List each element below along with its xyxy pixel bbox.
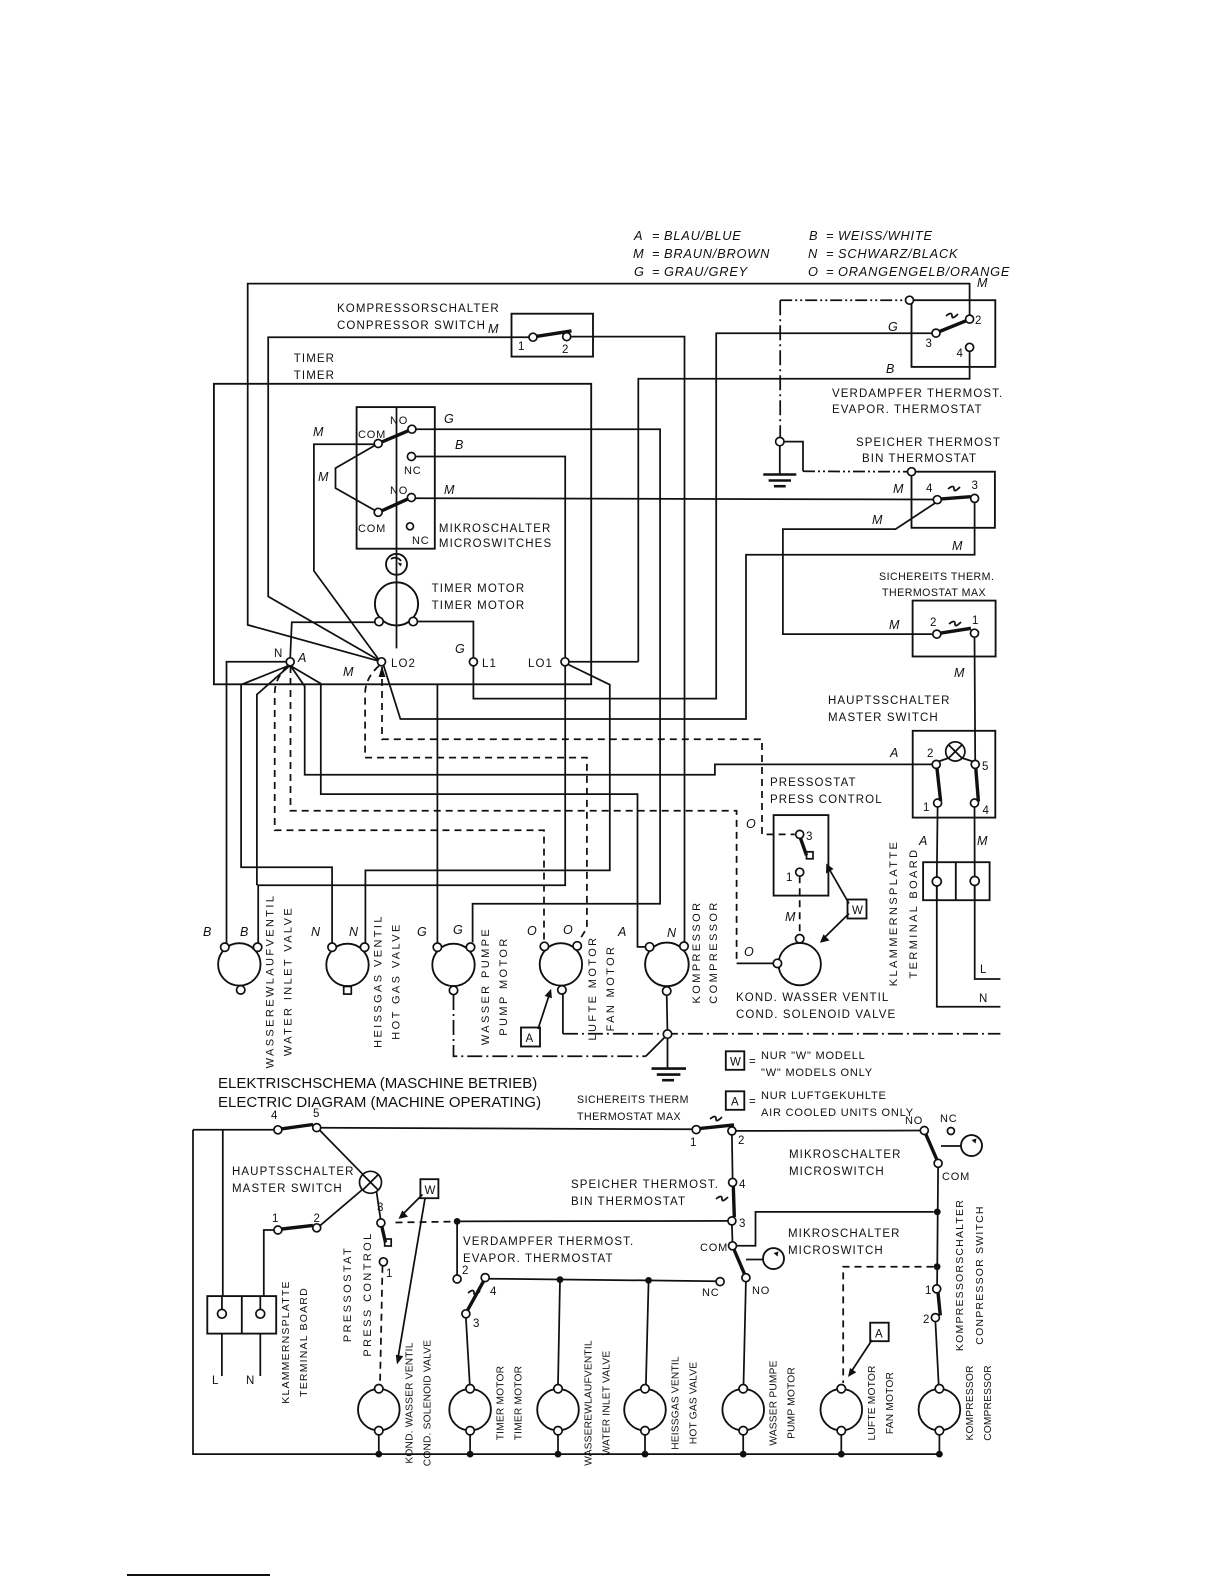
terminal LO2 node — [378, 658, 386, 666]
pressostat mid contact — [807, 852, 814, 859]
svg-text:A: A — [875, 1329, 884, 1341]
svg-text:3: 3 — [806, 831, 812, 843]
svg-text:B: B — [886, 362, 894, 376]
wire: junction down to evap contact 2 — [456, 1221, 458, 1275]
dashed wire M: pressostat contact 1 down to solenoid valve top terminal — [799, 876, 801, 934]
valve top terminal — [796, 935, 804, 943]
microswitch blade COM2-NO2 — [382, 499, 408, 511]
master switch box — [913, 731, 996, 818]
svg-text:4: 4 — [739, 1179, 746, 1191]
svg-text:M: M — [343, 665, 354, 679]
terminal board (top diagram) — [923, 862, 990, 900]
svg-text:4: 4 — [271, 1110, 278, 1122]
pump motor — [432, 944, 474, 986]
wire A: N terminal to master switch contact 2 — [290, 665, 932, 774]
bin node circle at box corner — [908, 468, 916, 476]
svg-text:=: = — [826, 264, 834, 279]
svg-text:O: O — [744, 945, 754, 959]
left rail and bottom bus — [193, 1130, 939, 1454]
svg-text:COM: COM — [358, 429, 386, 441]
wire: fan motor bottom terminal down to boundary — [562, 995, 564, 1034]
wire N: fan line to hot gas valve left terminal — [241, 665, 332, 943]
svg-text:L: L — [980, 964, 988, 976]
svg-text:G: G — [444, 412, 454, 426]
wire M: bin thermostat 4 to safety thermostat contact 2 — [783, 503, 935, 634]
microswitch 1 actuator — [961, 1135, 982, 1156]
top rail: master 5 to safety thermostat — [321, 1128, 693, 1130]
wire M: master switch 4 down through terminal board, L supply stub — [975, 807, 1001, 979]
svg-text:N: N — [246, 1375, 255, 1387]
svg-text:=: = — [652, 264, 660, 279]
svg-text:M: M — [313, 425, 324, 439]
svg-text:A: A — [617, 925, 626, 939]
svg-text:M: M — [872, 513, 883, 527]
wire: stub into solenoid valve left contact — [737, 962, 774, 964]
svg-text:W: W — [425, 1185, 437, 1197]
svg-text:WASSEREWLAUFVENTIL: WASSEREWLAUFVENTIL — [584, 1340, 595, 1466]
ground node circle — [663, 1030, 671, 1038]
master switch contact 5 — [971, 760, 979, 768]
svg-text:COMPRESSOR: COMPRESSOR — [983, 1365, 994, 1441]
microswitch COM-2 contact — [374, 508, 382, 516]
svg-text:1: 1 — [518, 341, 524, 353]
svg-text:COM: COM — [700, 1242, 728, 1254]
wire M: safety thermostat 1 down to master switch 5 — [974, 637, 977, 760]
evap thermostat contact 4 — [966, 343, 974, 351]
svg-text:BIN THERMOSTAT: BIN THERMOSTAT — [862, 453, 977, 465]
master switch (bottom) contacts 1 2 — [274, 1226, 282, 1234]
safety squiggle — [949, 622, 961, 626]
svg-text:SPEICHER THERMOST: SPEICHER THERMOST — [856, 437, 1001, 449]
wire: timer motor right contact to L1 — [417, 622, 473, 658]
W legend box — [726, 1051, 745, 1070]
wire: evap 3 down to timer motor — [466, 1318, 470, 1385]
compressor switch contact 1 — [529, 333, 537, 341]
legend wire colour codes — [633, 228, 1010, 279]
svg-text:1: 1 — [786, 872, 792, 884]
safety thermostat blade — [941, 628, 971, 633]
microswitch box — [357, 407, 435, 549]
svg-text:PRESSOSTAT: PRESSOSTAT — [342, 1246, 354, 1342]
svg-text:MICROSWITCH: MICROSWITCH — [788, 1245, 884, 1257]
svg-text:4: 4 — [957, 348, 964, 360]
svg-text:WASSER PUMPE: WASSER PUMPE — [480, 927, 492, 1045]
pressostat blade — [382, 1227, 386, 1243]
svg-text:3: 3 — [972, 480, 978, 492]
svg-text:VERDAMPFER THERMOST.: VERDAMPFER THERMOST. — [832, 388, 1003, 400]
microswitch NO-1 contact — [408, 425, 416, 433]
svg-text:FAN MOTOR: FAN MOTOR — [885, 1372, 896, 1434]
pump motor (bottom row) — [722, 1389, 764, 1431]
svg-text:THERMOSTAT MAX: THERMOSTAT MAX — [577, 1111, 681, 1123]
svg-text:SCHWARZ/BLACK: SCHWARZ/BLACK — [838, 246, 958, 261]
L supply wire down to terminal board — [222, 1130, 224, 1296]
lamp leads — [939, 758, 949, 762]
safety thermostat box — [913, 601, 996, 657]
svg-text:A: A — [889, 746, 898, 760]
svg-text:TIMER MOTOR: TIMER MOTOR — [432, 583, 526, 595]
svg-text:COND. SOLENOID VALVE: COND. SOLENOID VALVE — [422, 1340, 433, 1466]
svg-text:HOT GAS VALVE: HOT GAS VALVE — [689, 1362, 700, 1444]
svg-text:AIR COOLED UNITS ONLY: AIR COOLED UNITS ONLY — [761, 1107, 914, 1119]
wire M: microswitch NO-2 to bin thermostat contact 4 — [415, 498, 933, 499]
dashed wire O: LO2 down across to pressostat contact 3 — [382, 667, 795, 834]
evap node circle at box corner — [906, 296, 914, 304]
master switch lamp — [946, 742, 965, 761]
svg-text:WEISS/WHITE: WEISS/WHITE — [838, 228, 933, 243]
svg-text:1: 1 — [690, 1137, 696, 1149]
wire G: pump motor left terminal up to timer box edge — [436, 684, 438, 943]
wire: compressor switch down to compressor motor — [935, 1322, 938, 1385]
svg-text:G: G — [453, 923, 463, 937]
bin thermostat blade 4-3 — [941, 497, 971, 499]
svg-text:TIMER MOTOR: TIMER MOTOR — [514, 1366, 525, 1440]
ground symbol upper — [763, 446, 796, 486]
footer mark — [127, 1574, 270, 1576]
svg-text:A: A — [731, 1097, 740, 1109]
svg-text:M: M — [633, 246, 644, 261]
safety thermostat (bottom) contacts — [692, 1126, 700, 1134]
compressor switch box — [512, 314, 594, 357]
evap thermostat (bottom) contact 4 and blade to 3 — [481, 1274, 489, 1282]
dashed wire: pressostat 3 to junction — [396, 1221, 453, 1224]
svg-text:N: N — [274, 648, 283, 660]
pressostat (bottom) contact 3 — [377, 1219, 385, 1227]
svg-text:BIN THERMOSTAT: BIN THERMOSTAT — [571, 1196, 686, 1208]
lamp wires — [320, 1130, 364, 1174]
svg-text:KLAMMERNSPLATTE: KLAMMERNSPLATTE — [888, 840, 900, 986]
wire: junction to bin thermostat 3 — [457, 1220, 728, 1223]
svg-text:NUR "W" MODELL: NUR "W" MODELL — [761, 1050, 866, 1062]
svg-text:KOND. WASSER VENTIL: KOND. WASSER VENTIL — [736, 992, 889, 1004]
svg-text:HAUPTSSCHALTER: HAUPTSSCHALTER — [828, 695, 951, 707]
svg-text:M: M — [952, 539, 963, 553]
wire B: evap thermostat 4 down and across to LO1 junction — [638, 351, 969, 662]
svg-text:LO1: LO1 — [528, 658, 553, 670]
dashed wire: pressostat 1 down to solenoid valve — [380, 1266, 383, 1385]
wire M: LO2 to compressor-switch contact 1 — [268, 337, 529, 662]
svg-text:TIMER: TIMER — [294, 370, 335, 382]
compressor switch (bottom) contacts — [933, 1285, 941, 1293]
svg-text:MASTER SWITCH: MASTER SWITCH — [232, 1183, 343, 1195]
terminal L1 node — [469, 658, 477, 666]
microswitch blade COM1-NO1 — [382, 431, 408, 442]
dashed wire O: N terminal down across to condenser solenoid valve left terminal — [291, 666, 737, 963]
svg-text:"W" MODELS ONLY: "W" MODELS ONLY — [761, 1067, 873, 1079]
svg-text:COM: COM — [358, 523, 386, 535]
svg-text:A: A — [918, 834, 927, 848]
svg-text:L: L — [212, 1375, 220, 1387]
bin thermostat squiggle — [948, 487, 960, 491]
ground symbol lower — [652, 1038, 687, 1080]
svg-text:MICROSWITCH: MICROSWITCH — [789, 1166, 885, 1178]
svg-text:2: 2 — [738, 1135, 744, 1147]
svg-text:B: B — [240, 925, 248, 939]
evap thermostat (bottom) contact 2 — [453, 1275, 461, 1283]
svg-text:2: 2 — [314, 1213, 320, 1225]
junction dot on evap feed — [454, 1218, 461, 1225]
W-model box (bottom) with arrows — [420, 1179, 438, 1198]
bus (bottom diagram) from evap 4 to microswitch NC — [489, 1279, 716, 1282]
wire: bin thermostat 3 down across and to LO2 — [384, 502, 975, 719]
svg-text:1: 1 — [972, 615, 978, 627]
svg-text:NUR LUFTGEKUHLTE: NUR LUFTGEKUHLTE — [761, 1090, 887, 1102]
A-model box (bottom) with arrow — [870, 1323, 889, 1342]
pressostat contact 1 — [379, 1258, 387, 1266]
svg-text:KOMPRESSORSCHALTER: KOMPRESSORSCHALTER — [337, 303, 500, 315]
W-model box with arrows — [848, 900, 867, 919]
svg-text:EVAPOR. THERMOSTAT: EVAPOR. THERMOSTAT — [832, 404, 983, 416]
svg-text:4: 4 — [926, 483, 933, 495]
safety thermostat contact 1 — [971, 629, 979, 637]
svg-text:NO: NO — [905, 1115, 923, 1127]
bin thermostat contact 4 — [933, 496, 941, 504]
fan motor (bottom row) — [821, 1389, 863, 1431]
ground node circle upper — [776, 437, 784, 445]
terminal N node — [286, 658, 294, 666]
wire: diagonal into ground node — [646, 1037, 666, 1057]
svg-text:TIMER MOTOR: TIMER MOTOR — [496, 1366, 507, 1440]
wire to master switch contact 4 — [193, 1129, 274, 1131]
wire G: microswitch NO-1 right, down, to pump motor right terminal — [416, 429, 660, 942]
pressostat blade — [801, 838, 807, 855]
timer motor (bottom row) — [449, 1389, 491, 1431]
svg-text:=: = — [826, 246, 834, 261]
svg-text:MICROSWITCHES: MICROSWITCHES — [439, 538, 552, 550]
svg-text:2: 2 — [923, 1314, 929, 1326]
fan motor — [540, 943, 582, 985]
svg-text:NC: NC — [940, 1113, 958, 1125]
svg-text:M: M — [977, 276, 988, 290]
terminal board (bottom diagram) — [207, 1296, 276, 1334]
svg-text:SICHEREITS THERM.: SICHEREITS THERM. — [879, 571, 994, 583]
svg-text:2: 2 — [562, 344, 568, 356]
evap thermostat contact 2 — [966, 315, 974, 323]
svg-text:N: N — [979, 993, 988, 1005]
pressostat contact 1 — [796, 868, 804, 876]
svg-text:TERMINAL BOARD: TERMINAL BOARD — [298, 1287, 310, 1397]
timer motor circle — [375, 582, 418, 625]
svg-text:THERMOSTAT MAX: THERMOSTAT MAX — [882, 587, 986, 599]
dash-dot boundary wire through ground node — [563, 1033, 1001, 1035]
water inlet valve motor — [218, 943, 260, 985]
terminal circles — [932, 877, 941, 886]
microswitch 2 COM contact and blade to NO — [729, 1242, 737, 1250]
svg-text:W: W — [852, 905, 864, 917]
svg-text:1: 1 — [923, 802, 929, 814]
svg-text:3: 3 — [473, 1318, 479, 1330]
solenoid valve (bottom row) — [358, 1389, 400, 1431]
svg-text:A: A — [526, 1033, 535, 1045]
arrow head at LO2 on dashed wire — [379, 666, 386, 677]
wire: compressor bottom terminal down to ground node — [666, 995, 669, 1034]
compressor motor — [645, 943, 689, 987]
svg-text:2: 2 — [975, 315, 981, 327]
svg-text:O: O — [527, 924, 537, 938]
microswitch shaft — [396, 407, 398, 648]
svg-text:B: B — [203, 925, 211, 939]
compressor switch blade — [537, 331, 572, 336]
svg-text:COND. SOLENOID VALVE: COND. SOLENOID VALVE — [736, 1009, 896, 1021]
microswitch 2 actuator — [763, 1248, 784, 1269]
svg-text:5: 5 — [313, 1108, 319, 1120]
wire: N terminal up to timer motor left contact — [290, 622, 375, 658]
svg-text:A: A — [633, 228, 643, 243]
svg-text:MASTER SWITCH: MASTER SWITCH — [828, 712, 939, 724]
compressor switch contact 2 — [563, 333, 571, 341]
svg-text:O: O — [563, 923, 573, 937]
svg-text:4: 4 — [490, 1286, 497, 1298]
svg-text:KOMPRESSOR: KOMPRESSOR — [691, 901, 703, 1004]
hot gas valve (bottom row) — [624, 1389, 666, 1431]
svg-text:W: W — [730, 1057, 742, 1069]
master switch contact 4 — [971, 799, 979, 807]
svg-text:2: 2 — [930, 617, 936, 629]
svg-text:NC: NC — [404, 465, 422, 477]
svg-text:LUFTE MOTOR: LUFTE MOTOR — [867, 1365, 878, 1440]
svg-text:G: G — [417, 925, 427, 939]
dashed wire O: N terminal curve down to fan motor left terminal — [275, 666, 544, 942]
svg-text:KOMPRESSOR: KOMPRESSOR — [965, 1365, 976, 1440]
svg-text:TIMER MOTOR: TIMER MOTOR — [432, 600, 526, 612]
svg-text:PUMP MOTOR: PUMP MOTOR — [498, 936, 510, 1035]
wire: compressor switch contact 2 down to compressor motor right terminal — [571, 337, 685, 942]
valve left terminal — [773, 959, 781, 967]
wire: terminal circles to board bottom — [936, 886, 938, 900]
svg-text:M: M — [889, 618, 900, 632]
dash-dot-dot wire: evap box top edge left extension — [780, 299, 907, 301]
top rail to microswitch 1 NO — [736, 1130, 920, 1132]
svg-text:FAN MOTOR: FAN MOTOR — [605, 945, 617, 1032]
svg-text:1: 1 — [925, 1285, 931, 1297]
wire M: microswitch COM-1 left and down to LO2 — [314, 444, 378, 659]
svg-text:NO: NO — [390, 485, 408, 497]
timer motor right contact — [409, 617, 417, 625]
svg-text:NO: NO — [390, 415, 408, 427]
svg-text:NO: NO — [752, 1285, 770, 1297]
svg-text:1: 1 — [272, 1213, 278, 1225]
safety thermostat contact 2 — [933, 630, 941, 638]
bus junction dots and drops to water/hot-gas valves — [557, 1276, 564, 1283]
svg-text:=: = — [749, 1096, 757, 1108]
timer motor left contact — [375, 617, 383, 625]
svg-text:EVAPOR. THERMOSTAT: EVAPOR. THERMOSTAT — [463, 1253, 614, 1265]
svg-text:3: 3 — [926, 338, 932, 350]
compressor motor (bottom row) — [919, 1389, 961, 1431]
svg-text:GRAU/GREY: GRAU/GREY — [664, 264, 749, 279]
wire: LO1 to B-wire vertical — [569, 661, 638, 663]
svg-text:=: = — [652, 228, 660, 243]
svg-text:WASSER PUMPE: WASSER PUMPE — [769, 1360, 780, 1445]
bin thermostat (bottom) — [729, 1178, 737, 1186]
svg-text:PRESS CONTROL: PRESS CONTROL — [362, 1231, 374, 1356]
microswitch NC-1 contact — [407, 453, 415, 461]
svg-text:=: = — [749, 1056, 757, 1068]
svg-text:CONPRESSOR SWITCH: CONPRESSOR SWITCH — [337, 320, 486, 332]
wire A: N terminal to compressor motor left terminal — [290, 666, 646, 947]
svg-text:COMPRESSOR: COMPRESSOR — [708, 900, 720, 1003]
svg-text:TIMER: TIMER — [294, 353, 335, 365]
svg-text:BLAU/BLUE: BLAU/BLUE — [664, 228, 742, 243]
dash-dot wire: pump motor bottom terminal to ground node — [454, 995, 646, 1056]
svg-text:3: 3 — [377, 1202, 383, 1214]
dashed wire: junction to A-model fan motor — [843, 1267, 933, 1383]
dash-dot wire: evap box corner down to ground node — [779, 300, 781, 437]
condenser solenoid valve motor circle — [779, 943, 821, 985]
svg-text:G: G — [455, 642, 465, 656]
microswitch 1 NO contact and blade to COM — [920, 1127, 928, 1135]
svg-text:HEISSGAS VENTIL: HEISSGAS VENTIL — [671, 1356, 682, 1450]
svg-text:CONPRESSOR SWITCH: CONPRESSOR SWITCH — [974, 1205, 986, 1344]
svg-text:SPEICHER THERMOST.: SPEICHER THERMOST. — [571, 1179, 719, 1191]
svg-text:PUMP MOTOR: PUMP MOTOR — [787, 1367, 798, 1439]
A-model box with arrow (top diagram) — [521, 1028, 540, 1047]
terminal LO1 node — [561, 658, 569, 666]
wire bin 3 down to COM — [731, 1225, 734, 1242]
svg-text:TERMINAL BOARD: TERMINAL BOARD — [908, 848, 920, 979]
svg-text:HAUPTSSCHALTER: HAUPTSSCHALTER — [232, 1166, 355, 1178]
svg-text:M: M — [954, 666, 965, 680]
evap thermostat contact 3 — [932, 329, 940, 337]
dashed wire O: LO2 curve down across to fan motor right terminal — [365, 666, 587, 942]
svg-text:G: G — [888, 320, 898, 334]
microswitch COM-1 contact — [374, 440, 382, 448]
svg-text:B: B — [809, 228, 818, 243]
svg-text:BRAUN/BROWN: BRAUN/BROWN — [664, 246, 770, 261]
evap thermostat blade 3-2 — [940, 321, 967, 332]
wire G: evap thermostat 3 to vertical and L1 terminal — [473, 333, 932, 698]
svg-text:LO2: LO2 — [391, 658, 416, 670]
svg-text:N: N — [349, 925, 359, 939]
svg-text:M: M — [893, 482, 904, 496]
hot gas valve motor — [326, 944, 368, 986]
svg-text:4: 4 — [983, 805, 990, 817]
svg-text:ELEKTRISCHSCHEMA (MASCHINE BET: ELEKTRISCHSCHEMA (MASCHINE BETRIEB) — [218, 1075, 537, 1092]
wire B: N terminal left then down to water valve left terminal — [227, 662, 287, 943]
svg-text:G: G — [634, 264, 645, 279]
svg-text:L1: L1 — [482, 658, 497, 670]
A legend box — [726, 1091, 745, 1110]
svg-text:PRESSOSTAT: PRESSOSTAT — [770, 777, 857, 789]
svg-text:2: 2 — [462, 1265, 468, 1277]
pressostat mid contact — [385, 1239, 392, 1246]
wire safety 2 down to bin thermostat 4 — [731, 1135, 734, 1179]
microswitch NC-2 contact — [407, 523, 414, 530]
wire: N terminal fan line to B-wire corner — [257, 665, 290, 885]
microswitch 2 NC contact — [716, 1278, 724, 1286]
svg-text:M: M — [318, 470, 329, 484]
wire: evap ground node link — [784, 442, 803, 472]
svg-text:3: 3 — [739, 1218, 745, 1230]
bin thermostat contact 3 — [971, 494, 979, 502]
wire M: LO2 to outer loop to evaporator thermostat contact 2 — [248, 284, 970, 662]
svg-text:KLAMMERNSPLATTE: KLAMMERNSPLATTE — [280, 1280, 292, 1403]
svg-text:O: O — [746, 817, 756, 831]
master switch contact 2 — [932, 760, 940, 768]
svg-text:2: 2 — [927, 748, 933, 760]
master switch contact 1 — [934, 799, 942, 807]
wire: microswitch NO down to pump motor — [744, 1282, 746, 1385]
svg-text:M: M — [785, 910, 796, 924]
svg-text:LUFTE MOTOR: LUFTE MOTOR — [587, 935, 599, 1040]
timer box — [214, 384, 591, 685]
master lamp (bottom) — [360, 1171, 382, 1193]
wire: COM up and across to compressor-switch column — [737, 1212, 934, 1246]
svg-text:NC: NC — [412, 535, 430, 547]
bin thermostat box — [912, 472, 995, 528]
svg-text:WATER INLET VALVE: WATER INLET VALVE — [602, 1351, 613, 1456]
svg-text:M: M — [488, 322, 499, 336]
